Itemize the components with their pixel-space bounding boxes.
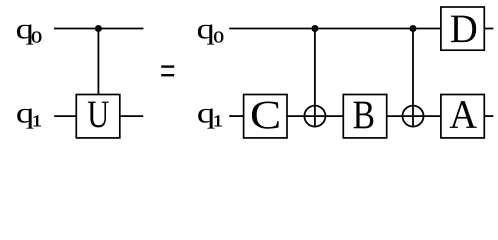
control dot 2 on q0 (right circuit) xyxy=(410,25,417,32)
wire control vertical 2 (right circuit) xyxy=(412,29,414,127)
gate A box xyxy=(441,95,484,138)
node q0 label (left circuit): subscript 0 xyxy=(32,32,41,43)
wire q1 right stub (left circuit) xyxy=(120,115,143,117)
node q0 label (right circuit): q xyxy=(198,24,214,44)
wire q0 right stub after D (right circuit) xyxy=(484,28,493,30)
wire control vertical 1 (right circuit) xyxy=(314,29,316,127)
gate B box xyxy=(343,95,386,138)
node q1 label (right circuit): subscript 1 xyxy=(215,115,222,126)
wire q1 between B and A (right circuit) xyxy=(387,115,441,117)
wire q1 right stub after A (right circuit) xyxy=(484,115,493,117)
equals sign xyxy=(161,65,174,76)
wire q1 left stub (right circuit) xyxy=(229,115,243,117)
control dot on q0 (left circuit) xyxy=(95,25,102,32)
gate C box xyxy=(244,95,287,138)
wire q0 main (right circuit) xyxy=(229,28,441,30)
wire q0 (left circuit top wire) xyxy=(54,28,143,30)
wire q1 between C and B (right circuit) xyxy=(287,115,343,117)
node q0 label (left circuit): q xyxy=(17,24,33,44)
node q1 label (left circuit): subscript 1 xyxy=(34,115,41,126)
gate D box xyxy=(441,7,484,50)
gate B label xyxy=(354,102,374,129)
node q1 label (right circuit): q xyxy=(198,109,214,129)
CNOT target 2 circle xyxy=(403,106,424,127)
gate C label xyxy=(252,101,279,128)
wire control vertical (left circuit) xyxy=(97,29,99,95)
node q1 label (left circuit): q xyxy=(17,109,33,129)
gate U box xyxy=(76,95,120,138)
CNOT target 1 circle xyxy=(304,106,325,127)
control dot 1 on q0 (right circuit) xyxy=(311,25,318,32)
gate U label xyxy=(88,102,109,128)
gate D label xyxy=(451,16,476,43)
node q0 label (right circuit): subscript 0 xyxy=(214,32,223,43)
wire q1 left stub (left circuit) xyxy=(54,115,76,117)
gate A label xyxy=(450,101,477,128)
